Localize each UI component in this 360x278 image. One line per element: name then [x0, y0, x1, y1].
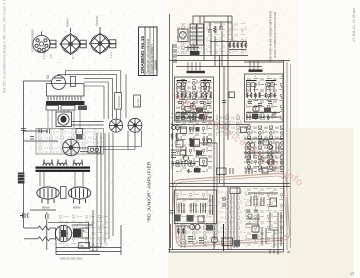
relay box	[200, 158, 208, 166]
scan noise speckle	[10, 10, 158, 250]
watermark stamp rounded rect	[173, 173, 290, 247]
inter-channel wires	[220, 56, 229, 187]
svg-text:6BW6: 6BW6	[42, 206, 50, 210]
svg-text:5: 5	[350, 272, 356, 275]
svg-text:LONDON: LONDON	[156, 60, 158, 70]
label box P2	[134, 95, 141, 107]
dark components lower	[175, 215, 205, 223]
svg-text:V1: V1	[46, 75, 50, 79]
mid column lower parts	[222, 187, 240, 251]
nested loom wires to control box	[58, 71, 126, 123]
resistor R1	[71, 77, 76, 87]
output caps bottom	[171, 224, 218, 248]
wire	[24, 130, 49, 132]
svg-text:·· ···: ·· ···	[38, 56, 43, 58]
supply wires lower	[170, 121, 291, 250]
dark bus line	[223, 224, 225, 251]
svg-text:1 2 3: 1 2 3	[42, 53, 46, 59]
tag strip ticks	[48, 97, 81, 101]
right lower cluster	[246, 212, 281, 248]
terminal boxes bottom	[222, 238, 240, 247]
rectifier tag	[185, 46, 200, 56]
wires V2 box to loom	[72, 122, 104, 126]
control box	[115, 93, 122, 110]
bottom border marks	[270, 249, 290, 255]
mid stage boxes	[183, 136, 217, 161]
lower loom wires	[89, 131, 142, 252]
svg-text:THE FAIRY MADE SOUND AMPLIFIER: THE FAIRY MADE SOUND AMPLIFIER	[269, 11, 273, 62]
svg-text:OUTPUT: OUTPUT	[138, 97, 140, 107]
resistor chain left	[171, 133, 178, 158]
octal socket V5	[60, 28, 86, 55]
speaker block	[18, 173, 25, 184]
pilot lamp	[178, 29, 188, 42]
supply rail wires	[170, 16, 291, 67]
mains transformer T2	[190, 16, 204, 45]
right channel caps and parts	[246, 100, 280, 118]
capacitor C10	[170, 211, 174, 214]
small caps cluster top	[193, 16, 232, 32]
wires bottom-left section	[20, 210, 121, 255]
svg-text:MODEL CAMBRIDGE STEREO MODEL: MODEL CAMBRIDGE STEREO MODEL	[273, 11, 277, 58]
svg-text:LOUDSPEAKER: LOUDSPEAKER	[31, 29, 35, 52]
loudspeaker socket V4	[33, 32, 56, 53]
svg-text:V2: V2	[60, 128, 64, 132]
svg-text:RD-15C (CrashMarkers) Rogers_R: RD-15C (CrashMarkers) Rogers_RD Junior_R…	[3, 0, 7, 93]
left channel transistors Q1 Q2	[177, 81, 212, 93]
electrolytic groups	[177, 195, 213, 215]
resistor R3	[24, 237, 56, 241]
svg-text:··· ··: ··· ··	[63, 56, 68, 58]
driver tube V9	[55, 225, 71, 241]
component texture fills (dense scan regions)	[37, 23, 283, 248]
plug socket P2 (wheel)	[128, 118, 142, 132]
right channel box	[245, 74, 284, 122]
svg-text:DRAWN BY H.D.CHISHOLM: DRAWN BY H.D.CHISHOLM	[146, 38, 150, 73]
mains connector	[80, 147, 101, 154]
right page paper	[167, 0, 298, 278]
left channel box	[175, 77, 214, 121]
octal socket V6	[89, 27, 116, 54]
capacitor C1	[21, 129, 26, 135]
preamp cluster left	[172, 126, 200, 148]
svg-text:CONTROL: CONTROL	[118, 95, 121, 107]
capacitor C2	[30, 137, 34, 140]
right channel tag bar	[249, 70, 263, 72]
page right borders	[244, 61, 291, 253]
bottom border double line	[169, 250, 284, 253]
output coupling box	[241, 127, 247, 133]
right channel transistors Q3 Q4	[246, 81, 276, 93]
capacitor C5	[39, 129, 50, 134]
drawing number table	[139, 27, 158, 76]
driver stage band right	[247, 113, 276, 120]
svg-text:1 2 3: 1 2 3	[109, 52, 113, 58]
output transformer core bar	[36, 167, 91, 172]
capacitor C3	[20, 213, 29, 218]
svg-text:"RD JUNIOR" AMPLIFIER: "RD JUNIOR" AMPLIFIER	[147, 161, 153, 222]
tag bar feed wires	[188, 61, 258, 71]
tag board dark bar	[46, 101, 85, 105]
fuse boxes	[76, 129, 83, 140]
driver stage band left	[171, 113, 250, 125]
svg-text:—·—: —·—	[56, 62, 62, 64]
boxes mid lower	[180, 150, 202, 156]
svg-text:MAINS 200-250v: MAINS 200-250v	[60, 257, 83, 261]
transformer windings	[43, 160, 83, 166]
dropper resistor row	[210, 42, 247, 50]
power section top boxes	[187, 168, 276, 175]
lamination rect row	[46, 106, 87, 111]
resistor R2	[24, 226, 56, 230]
output tube V8	[68, 187, 90, 204]
socket wiring labels	[38, 56, 68, 64]
svg-text:6BW6: 6BW6	[73, 206, 81, 210]
left channel caps and parts	[176, 100, 212, 118]
tag row lower left	[171, 161, 196, 166]
right channel resistor row	[246, 93, 275, 98]
svg-text:4 5: 4 5	[49, 54, 53, 58]
wire	[24, 140, 59, 142]
svg-text:MAINS: MAINS	[66, 18, 70, 27]
left rail wire	[23, 81, 25, 228]
wire V1 to left rail	[24, 80, 52, 82]
chassis box around V1	[47, 84, 85, 97]
chassis outline lower	[36, 129, 104, 155]
right mid cluster	[244, 139, 283, 165]
svg-text:PICKUP: PICKUP	[95, 15, 99, 26]
plug socket P1 (wheel)	[109, 119, 122, 132]
capacitor C4	[46, 212, 49, 250]
coupling component between output tubes	[61, 187, 67, 199]
bottom-left transistors right page	[176, 225, 213, 235]
left channel resistor row	[177, 93, 212, 98]
svg-text:DRAWING No.15: DRAWING No.15	[140, 36, 146, 74]
right page second border wire	[172, 44, 174, 250]
drop wires to rectifier box	[48, 110, 80, 128]
OPT lead wires	[40, 172, 83, 187]
power amp box lower left	[175, 190, 217, 224]
svg-text:6 7 8: 6 7 8	[71, 53, 75, 59]
right page left border wire	[169, 14, 171, 252]
mid coupling box	[222, 92, 235, 103]
rectifier box with tube V2	[56, 112, 72, 127]
output tube V7	[37, 187, 59, 204]
left channel tag bar	[187, 71, 206, 73]
fuse resistor	[214, 26, 216, 33]
input jacks column	[173, 45, 177, 62]
svg-text:17-Oct-11, 11:42 pm: 17-Oct-11, 11:42 pm	[352, 8, 356, 42]
output terminal box	[79, 242, 90, 248]
rectifier socket V3 (wheel)	[63, 139, 80, 156]
tube V1	[52, 76, 66, 90]
svg-text:ROGERS DEVELOPMENTS: ROGERS DEVELOPMENTS	[152, 44, 154, 74]
right lower resistor groups	[246, 193, 278, 212]
cream margin strip	[288, 128, 354, 278]
bottom bus wires	[56, 240, 121, 255]
bias network cluster	[48, 210, 93, 251]
watermark diagonal text	[168, 88, 305, 189]
